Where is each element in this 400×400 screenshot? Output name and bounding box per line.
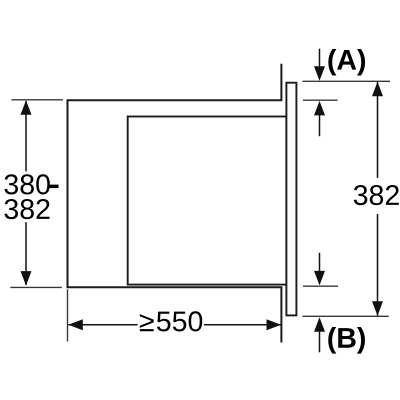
extension line: left bottom (niche bottom level) <box>10 286 62 288</box>
dimension >=550: left arrowhead <box>68 319 83 330</box>
appliance body (inner rectangle) <box>128 117 287 285</box>
dimension 380-382: bottom arrowhead <box>21 271 32 286</box>
extension line: below left niche corner (for width dim) <box>67 289 69 341</box>
dimension 382 (right): label background <box>353 178 400 214</box>
dimension 382 (right): label <box>354 185 399 205</box>
dimension 380-382: top arrowhead <box>21 100 32 115</box>
extension line: frame bottom level right side (B lower / 382 bottom level) <box>303 315 389 317</box>
dimension >=550: label <box>140 314 154 331</box>
dimension 380-382: label background <box>0 171 58 222</box>
dimension >=550: right arrowhead <box>267 319 282 330</box>
label (A) <box>328 49 365 76</box>
dimension B: upper arrow (pointing down) <box>319 253 321 272</box>
dimension 380-382: label <box>4 174 49 194</box>
dimension A: upper arrow (pointing down) <box>319 49 321 68</box>
appliance front frame (vertical bar) <box>286 83 296 316</box>
dimension B: lower arrow (pointing up) <box>314 317 325 332</box>
dimension 382 (right): top arrowhead <box>372 82 383 97</box>
extension line: niche top level right side (A lower) <box>303 99 338 101</box>
dimension 382 (right): bottom arrowhead <box>372 301 383 316</box>
cabinet niche outline (open right side, with front-edge verticals) <box>68 64 282 343</box>
dimension A: lower arrow (pointing up) <box>314 101 325 116</box>
dimension 380-382: vertical line <box>25 101 27 285</box>
extension line: left top (niche top level) <box>11 99 63 101</box>
extension line: niche bottom level right side (B upper) <box>303 285 338 287</box>
dimension >=550: label background <box>138 309 204 338</box>
label (B) <box>328 327 365 354</box>
extension line: right of frame top (A upper / 382 top level) <box>303 80 391 82</box>
dimension >=550: horizontal line <box>68 324 281 326</box>
dimension 382 (right): vertical line <box>377 82 379 316</box>
